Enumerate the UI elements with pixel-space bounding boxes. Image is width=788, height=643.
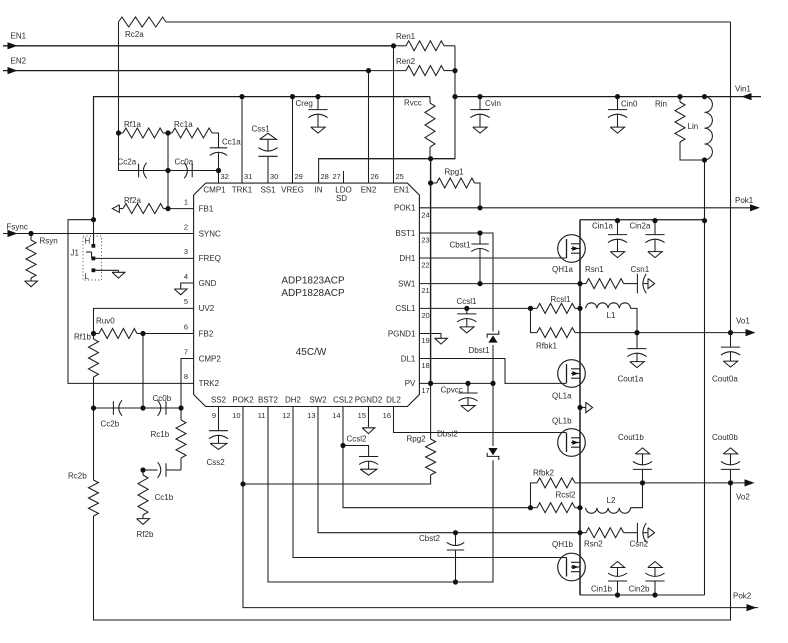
- junction Cin2a: [652, 218, 657, 223]
- wire FB2 line: [143, 333, 194, 335]
- resistor Rpg1: [431, 168, 480, 208]
- svg-text:29: 29: [295, 172, 303, 181]
- node Pok1 label: [735, 196, 754, 205]
- svg-text:Cbst1: Cbst1: [450, 241, 471, 250]
- wire Rfbk1 left leg: [531, 308, 538, 332]
- op-amp U1 ADP1823ACP/ADP1828ACP outline: [194, 183, 420, 406]
- svg-text:Pok2: Pok2: [733, 591, 752, 600]
- svg-text:J1: J1: [71, 249, 80, 258]
- jumper J1 block: [71, 220, 194, 281]
- svg-text:Cvin: Cvin: [485, 99, 501, 108]
- pin 20 CSL1: [395, 304, 429, 320]
- inductor L1: [586, 303, 631, 320]
- pin 26 EN2: [361, 172, 379, 194]
- svg-text:26: 26: [371, 172, 379, 181]
- wire Ren right vertical: [319, 46, 455, 183]
- node Vo1 label: [736, 317, 750, 326]
- svg-text:23: 23: [421, 236, 429, 245]
- svg-text:PV: PV: [405, 379, 416, 388]
- wire PV pin line: [419, 382, 493, 384]
- resistor Ren2: [396, 57, 455, 76]
- wire Rc1a to Cc1a: [212, 133, 219, 148]
- junction VREG/J1-H/TRK2 tie: [91, 217, 96, 222]
- resistor Rf1a: [119, 120, 169, 138]
- junction Vo1 / Rc2a column / Cout0a: [728, 330, 733, 335]
- svg-text:Rfbk2: Rfbk2: [533, 469, 554, 478]
- svg-text:10: 10: [232, 411, 240, 420]
- svg-text:7: 7: [184, 347, 188, 356]
- node Pok2 label: [733, 591, 752, 600]
- capacitor Csn2: [630, 523, 655, 549]
- pin 13 SW2: [307, 396, 327, 420]
- svg-text:1: 1: [184, 197, 188, 206]
- svg-text:FB1: FB1: [199, 204, 214, 213]
- pin 8 TRK2: [184, 372, 220, 388]
- svg-text:EN1: EN1: [394, 185, 410, 194]
- svg-text:15: 15: [358, 411, 366, 420]
- wire VIN rail right: [455, 96, 761, 98]
- wire EN2 vertical to pin 26: [368, 71, 370, 184]
- svg-text:Creg: Creg: [296, 99, 313, 108]
- ground PGND1: [435, 338, 448, 344]
- junction Vo1 / L1 / Cout1a: [634, 330, 639, 335]
- svg-text:Rpg2: Rpg2: [407, 435, 427, 444]
- wire EN2 input line: [3, 70, 369, 72]
- node Pok1 arrow: [750, 204, 760, 211]
- capacitor Cc0b: [153, 394, 172, 416]
- svg-text:ADP1828ACP: ADP1828ACP: [281, 288, 345, 299]
- junction FB2/Ruv0: [140, 331, 145, 336]
- svg-text:Ruv0: Ruv0: [96, 317, 115, 326]
- svg-text:12: 12: [282, 411, 290, 420]
- wire POK1 line: [419, 207, 758, 209]
- svg-text:Rin: Rin: [655, 100, 667, 109]
- wire CSL2 route: [343, 407, 531, 508]
- svg-text:Rfbk1: Rfbk1: [536, 342, 557, 351]
- pin 5 UV2: [184, 297, 215, 313]
- pin 27 LDO: [333, 172, 352, 203]
- junction BST2/Cbst2 bottom: [453, 579, 458, 584]
- svg-text:31: 31: [244, 172, 252, 181]
- svg-text:FREQ: FREQ: [199, 254, 221, 263]
- junction VREG rail / TRK1: [239, 94, 244, 99]
- svg-text:SW1: SW1: [398, 279, 416, 288]
- wire switch-node column: [579, 220, 581, 595]
- wire top feedback rail (Rc2a to Vo1 column): [166, 21, 731, 23]
- junction BST1/Cbst1: [477, 230, 482, 235]
- wire Dbst1 anode lead: [492, 345, 494, 383]
- node Vo2 label: [736, 493, 750, 502]
- pin 7 CMP2: [184, 347, 222, 363]
- svg-text:PGND1: PGND1: [388, 329, 416, 338]
- pin 23 BST1: [395, 229, 429, 245]
- capacitor Cout0b: [712, 433, 740, 483]
- svg-text:Rf1b: Rf1b: [74, 333, 91, 342]
- svg-text:TRK2: TRK2: [199, 379, 220, 388]
- capacitor Cin0: [608, 97, 638, 134]
- wire pin31 TRK1 to VREG rail: [241, 97, 243, 184]
- wire pin29 VREG to rail: [292, 97, 294, 184]
- capacitor Ccsl1: [457, 297, 478, 333]
- capacitor Ccsl2: [343, 435, 378, 476]
- svg-text:Cout1a: Cout1a: [618, 375, 644, 384]
- svg-text:27: 27: [333, 172, 341, 181]
- svg-text:CMP2: CMP2: [199, 354, 222, 363]
- wire CMP2 route: [181, 359, 194, 409]
- junction VIN high-side line: [702, 218, 707, 223]
- resistor Rpg2: [407, 383, 436, 484]
- wire EN1 input line: [3, 45, 394, 47]
- wire Vo2 line: [575, 482, 751, 484]
- wire Rf1b lower vertical: [93, 385, 95, 408]
- capacitor Cin1a: [592, 221, 627, 258]
- svg-text:Ccsl1: Ccsl1: [457, 297, 478, 306]
- svg-text:FB2: FB2: [199, 329, 214, 338]
- svg-text:QH1a: QH1a: [552, 265, 573, 274]
- svg-text:17: 17: [421, 386, 429, 395]
- junction CSL2/Rcsl2/Rfbk2: [528, 505, 533, 510]
- wire VIN to high-side line: [580, 219, 705, 221]
- pin 15 PGND2: [355, 396, 383, 420]
- resistor Rsyn: [25, 234, 58, 287]
- wire L2 output leg: [630, 483, 642, 508]
- pin 14 CSL2: [332, 396, 353, 420]
- pin 32 CMP1: [203, 172, 228, 194]
- svg-text:14: 14: [332, 411, 340, 420]
- svg-text:32: 32: [221, 172, 229, 181]
- capacitor Cvin: [470, 97, 501, 134]
- svg-text:DL2: DL2: [386, 396, 401, 405]
- capacitor Cc1b: [143, 462, 181, 502]
- svg-text:Cc2a: Cc2a: [118, 158, 137, 167]
- resistor Rcsl2: [531, 491, 581, 513]
- svg-text:11: 11: [258, 411, 266, 420]
- junction Rpg1 left: [428, 180, 433, 185]
- svg-text:13: 13: [307, 411, 315, 420]
- ground GND pin4: [174, 283, 193, 295]
- junction Cc1b / Rf2b: [140, 467, 145, 472]
- svg-text:POK1: POK1: [394, 204, 416, 213]
- svg-text:9: 9: [212, 411, 216, 420]
- junction Fsync/Rsyn: [28, 231, 33, 236]
- junction VIN rail / EN pullups: [452, 94, 457, 99]
- svg-text:EN2: EN2: [361, 185, 377, 194]
- wire pin27 LDO-SD stub: [343, 171, 345, 183]
- svg-text:16: 16: [383, 411, 391, 420]
- capacitor Cout1b: [618, 433, 652, 483]
- svg-text:DH1: DH1: [399, 254, 416, 263]
- junction Cin1b: [615, 592, 620, 597]
- svg-text:Rf2a: Rf2a: [124, 196, 141, 205]
- junction VIN rail / Rin: [677, 94, 682, 99]
- svg-text:Cin1a: Cin1a: [592, 222, 613, 231]
- junction VIN rail / Cin0: [615, 94, 620, 99]
- svg-text:Fsync: Fsync: [7, 223, 28, 232]
- wire IN line: [319, 158, 455, 160]
- pin 17 PV: [405, 379, 430, 395]
- svg-text:UV2: UV2: [199, 304, 215, 313]
- transistor QL1b: [552, 417, 585, 457]
- resistor Rfbk2: [533, 469, 575, 488]
- junction SW2 / Rsn2: [577, 530, 582, 535]
- svg-text:Csn1: Csn1: [631, 265, 650, 274]
- junction POK2/Rpg2: [240, 481, 245, 486]
- wire ch2 input line: [580, 594, 705, 596]
- pin 21 SW1: [398, 279, 430, 295]
- U1 part number labels: [281, 275, 345, 358]
- svg-text:Rsn1: Rsn1: [585, 265, 604, 274]
- svg-text:4: 4: [184, 272, 188, 281]
- resistor Rc2b: [68, 472, 99, 517]
- svg-text:Cout0a: Cout0a: [712, 375, 738, 384]
- junction Vo2 / Cout0b / bottom rail: [728, 480, 733, 485]
- svg-text:Rvcc: Rvcc: [404, 99, 422, 108]
- node EN2 label: [11, 56, 27, 65]
- pin 12 DH2: [282, 396, 301, 420]
- junction PGND node: [577, 405, 582, 410]
- node Fsync label: [7, 223, 28, 232]
- junction VIN rail / Cvin: [477, 94, 482, 99]
- junction Ren2 right: [452, 68, 457, 73]
- svg-text:Rc1b: Rc1b: [151, 430, 170, 439]
- node EN1 input arrow: [8, 42, 18, 49]
- capacitor Cin2a: [630, 221, 665, 258]
- svg-text:45C/W: 45C/W: [296, 347, 327, 358]
- junction Cin2b: [652, 592, 657, 597]
- pin 19 PGND1: [388, 329, 430, 345]
- junction PV/Dbst1/Dbst2: [490, 381, 495, 386]
- svg-text:Css1: Css1: [252, 125, 271, 134]
- pin 29 VREG: [281, 172, 304, 194]
- transistor QH1b: [552, 540, 585, 581]
- svg-text:Cc1b: Cc1b: [155, 493, 174, 502]
- capacitor Css1: [252, 125, 278, 157]
- wire Rc2b to bottom rail: [94, 483, 731, 620]
- svg-text:Cc2b: Cc2b: [101, 420, 120, 429]
- resistor Rcsl1: [531, 295, 581, 313]
- pin 9 SS2: [211, 396, 227, 420]
- wire L1 output leg: [630, 308, 637, 332]
- svg-text:L: L: [85, 272, 90, 281]
- svg-text:Rsyn: Rsyn: [40, 237, 58, 246]
- svg-text:Cc1a: Cc1a: [222, 138, 241, 147]
- transistor QL1a: [552, 360, 585, 401]
- svg-text:SYNC: SYNC: [199, 229, 221, 238]
- junction POK1/Rpg1: [477, 205, 482, 210]
- junction Cc2a/Cc0a: [165, 168, 170, 173]
- svg-text:EN1: EN1: [11, 32, 27, 41]
- svg-text:18: 18: [421, 361, 429, 370]
- junction SW2 node / Rcsl2 / L2: [577, 505, 582, 510]
- pin 2 SYNC: [184, 222, 221, 238]
- pin 3 FREQ: [184, 247, 221, 263]
- svg-text:Rc1a: Rc1a: [174, 120, 193, 129]
- pin 10 POK2: [232, 396, 254, 420]
- resistor Rsn1: [580, 265, 637, 289]
- svg-text:TRK1: TRK1: [232, 185, 253, 194]
- svg-text:Rf2b: Rf2b: [137, 530, 154, 539]
- wire Rfbk2 left leg: [531, 483, 538, 508]
- svg-text:Cin2b: Cin2b: [629, 585, 650, 594]
- svg-text:DH2: DH2: [285, 396, 302, 405]
- wire SS2 stub: [218, 407, 220, 425]
- wire PGND2 stub: [368, 407, 370, 427]
- svg-text:Ren1: Ren1: [396, 32, 416, 41]
- svg-text:Cout1b: Cout1b: [618, 433, 644, 442]
- pin 1 FB1: [184, 197, 214, 213]
- junction CMP2 / Rc1b: [178, 405, 183, 410]
- svg-text:Ren2: Ren2: [396, 57, 416, 66]
- junction CSL2/Ccsl2: [340, 443, 345, 448]
- capacitor Cout0a: [712, 333, 740, 384]
- wire compensation line b: [94, 407, 182, 409]
- resistor Ruv0: [94, 317, 144, 339]
- pin 22 DH1: [399, 254, 429, 270]
- wire FB2 node vertical: [142, 334, 144, 409]
- pin 11 BST2: [258, 396, 279, 420]
- pin 28 IN: [315, 172, 329, 194]
- junction SW1/Cbst1: [477, 281, 482, 286]
- diode Dbst1 (schottky, PV to BST1): [469, 331, 499, 355]
- svg-text:Rpg1: Rpg1: [445, 168, 465, 177]
- svg-text:Css2: Css2: [207, 458, 226, 467]
- node Pok2 arrow: [747, 604, 757, 611]
- svg-text:Vo2: Vo2: [736, 493, 750, 502]
- svg-text:Rc2b: Rc2b: [68, 472, 87, 481]
- pin 4 GND: [184, 272, 217, 288]
- pin 30 SS1: [260, 172, 278, 194]
- capacitor Cout1a: [618, 333, 647, 384]
- junction SW1 node / Rsn1: [577, 281, 582, 286]
- transistor QH1a: [552, 235, 585, 274]
- capacitor Cbst2: [419, 533, 464, 582]
- wire Rc2a left vertical to compensation node: [118, 22, 120, 171]
- wire SW1 line: [419, 283, 580, 285]
- svg-text:DL1: DL1: [401, 354, 416, 363]
- svg-text:SD: SD: [336, 194, 347, 203]
- svg-text:Rcsl2: Rcsl2: [556, 491, 577, 500]
- svg-text:Rc2a: Rc2a: [125, 30, 144, 39]
- svg-text:Dbst1: Dbst1: [469, 346, 490, 355]
- resistor Rc1a: [168, 120, 212, 138]
- wire EN2 to Ren2: [369, 70, 407, 72]
- inductor L2: [586, 496, 631, 513]
- junction VIN rail / Lin: [702, 94, 707, 99]
- junction CMP1 node pin32: [216, 168, 221, 173]
- svg-text:20: 20: [421, 311, 429, 320]
- wire compensation line a: [119, 170, 219, 172]
- capacitor Cbst1: [450, 233, 489, 284]
- wire EN1 vertical to pin 25: [393, 46, 395, 183]
- resistor Rf2a: [112, 196, 168, 214]
- resistor Rsn2: [580, 528, 637, 549]
- svg-text:19: 19: [421, 336, 429, 345]
- capacitor Cin2b: [629, 562, 665, 596]
- wire FB1 node vertical: [167, 133, 169, 209]
- svg-text:Rcsl1: Rcsl1: [551, 295, 572, 304]
- wire pin32 stub: [218, 171, 220, 184]
- svg-text:CSL2: CSL2: [333, 396, 354, 405]
- svg-text:Cpvcc: Cpvcc: [441, 385, 463, 394]
- junction EN2/pin26: [366, 68, 371, 73]
- junction SW node / Rcsl1 / L1: [577, 306, 582, 311]
- ground PGND2: [362, 428, 375, 434]
- resistor Rfbk1: [536, 328, 575, 351]
- resistor Rvcc: [404, 97, 435, 159]
- junction VREG rail / Creg: [315, 94, 320, 99]
- resistor Ren1: [394, 32, 456, 51]
- wire POK2 route: [243, 407, 758, 608]
- svg-text:H: H: [85, 236, 91, 245]
- capacitor Cc0a: [175, 158, 194, 179]
- inductor Lin: [688, 97, 713, 160]
- resistor Rf2b: [137, 470, 154, 539]
- wire CSL1 line: [419, 307, 530, 309]
- svg-text:VREG: VREG: [281, 185, 304, 194]
- svg-text:Rsn2: Rsn2: [584, 540, 603, 549]
- junction UV2 divider / Rf1b / Ruv0: [91, 331, 96, 336]
- svg-text:Rf1a: Rf1a: [124, 120, 141, 129]
- node Vo1 arrow: [746, 329, 756, 336]
- junction Vo2 / L2 / Cout1b: [640, 480, 645, 485]
- junction PV pin: [428, 381, 433, 386]
- svg-text:BST2: BST2: [258, 396, 279, 405]
- wire VREG rail: [94, 97, 431, 220]
- svg-text:L2: L2: [607, 496, 616, 505]
- wire pin30 SS1 stub: [267, 156, 269, 183]
- node EN2 input arrow: [8, 67, 18, 74]
- svg-text:Cc0b: Cc0b: [153, 394, 172, 403]
- svg-text:8: 8: [184, 372, 188, 381]
- wire FB1 line: [168, 208, 194, 210]
- capacitor Cc2b: [101, 400, 123, 428]
- resistor Rc1b: [151, 408, 187, 470]
- svg-text:21: 21: [421, 286, 429, 295]
- wire feedback column to Vo1: [730, 22, 732, 333]
- wire PV vertical: [430, 159, 432, 384]
- svg-text:Csn2: Csn2: [630, 540, 649, 549]
- svg-text:Ccsl2: Ccsl2: [347, 435, 368, 444]
- junction Rf1a/Rc1a: [165, 130, 170, 135]
- svg-text:3: 3: [184, 247, 188, 256]
- svg-text:GND: GND: [199, 279, 217, 288]
- node Vin1 arrow: [742, 93, 752, 100]
- svg-text:IN: IN: [315, 185, 323, 194]
- svg-text:Cout0b: Cout0b: [712, 433, 738, 442]
- resistor Rin: [655, 97, 705, 160]
- junction Rf1a left / Rc2a-Cc2a: [116, 130, 121, 135]
- junction PV/Cpvcc: [465, 381, 470, 386]
- wire BST2 route: [268, 407, 493, 583]
- wire Rpg2 to POK2: [243, 483, 431, 485]
- pin 18 DL1: [401, 354, 430, 370]
- svg-text:CSL1: CSL1: [395, 304, 416, 313]
- wire DH1 line: [419, 257, 566, 259]
- wire Vin column (Lin to ch2): [704, 160, 706, 595]
- svg-text:L1: L1: [607, 311, 616, 320]
- svg-text:QL1a: QL1a: [552, 391, 572, 400]
- resistor Rf1b: [74, 333, 99, 386]
- resistor Rc2a: [119, 17, 167, 39]
- wire SW2 route: [318, 407, 580, 533]
- node Fsync arrow: [8, 230, 18, 237]
- junction VREG rail / VREG pin: [290, 94, 295, 99]
- diode Dbst2 (schottky, PV to BST2): [437, 430, 499, 461]
- svg-text:EN2: EN2: [11, 56, 27, 65]
- svg-text:Cbst2: Cbst2: [419, 534, 440, 543]
- svg-text:SS1: SS1: [260, 185, 276, 194]
- pin 25 EN1: [394, 172, 410, 194]
